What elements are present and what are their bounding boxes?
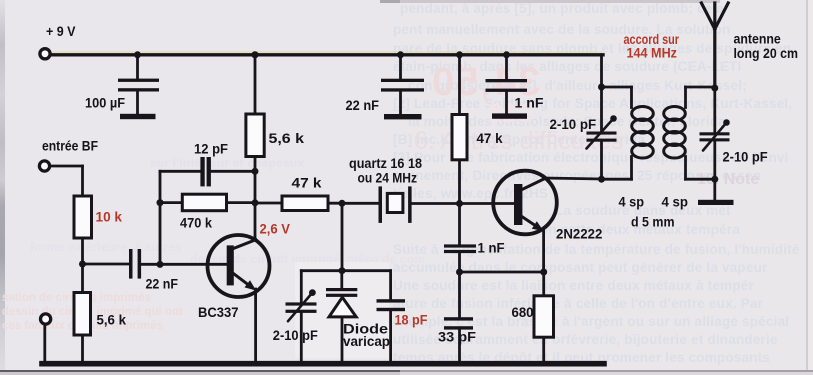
svg-text:22 nF: 22 nF xyxy=(346,97,380,113)
svg-text:144 MHz: 144 MHz xyxy=(627,45,678,61)
svg-text:2-10 pF: 2-10 pF xyxy=(273,327,318,343)
svg-text:1 nF: 1 nF xyxy=(515,95,544,111)
svg-text:antenne: antenne xyxy=(734,31,781,47)
svg-text:ou 24 MHz: ou 24 MHz xyxy=(358,170,418,186)
svg-text:entrée BF: entrée BF xyxy=(42,138,98,154)
svg-text:680: 680 xyxy=(512,304,534,320)
svg-text:5,6 k: 5,6 k xyxy=(269,130,305,146)
svg-text:2,6 V: 2,6 V xyxy=(260,221,291,237)
svg-text:long 20 cm: long 20 cm xyxy=(734,45,799,61)
svg-text:100 µF: 100 µF xyxy=(85,94,125,110)
svg-text:5,6 k: 5,6 k xyxy=(97,312,127,328)
svg-text:18 pF: 18 pF xyxy=(395,312,428,328)
svg-text:d 5 mm: d 5 mm xyxy=(631,213,675,229)
svg-text:22 nF: 22 nF xyxy=(146,275,179,291)
svg-text:2-10 pF: 2-10 pF xyxy=(550,116,597,132)
svg-text:varicap: varicap xyxy=(343,333,390,349)
svg-text:47 k: 47 k xyxy=(477,130,503,146)
svg-text:+ 9 V: + 9 V xyxy=(46,23,76,39)
svg-text:470 k: 470 k xyxy=(180,215,212,231)
svg-text:4 sp: 4 sp xyxy=(619,193,645,209)
svg-text:4 sp: 4 sp xyxy=(662,193,689,209)
svg-text:47 k: 47 k xyxy=(292,175,322,191)
svg-text:2N2222: 2N2222 xyxy=(556,225,603,241)
svg-text:2-10 pF: 2-10 pF xyxy=(723,149,769,165)
svg-text:BC337: BC337 xyxy=(198,304,239,320)
svg-text:1 nF: 1 nF xyxy=(478,239,505,255)
svg-text:33 pF: 33 pF xyxy=(438,329,476,345)
svg-text:10 k: 10 k xyxy=(96,209,123,225)
svg-text:12 pF: 12 pF xyxy=(194,141,228,157)
